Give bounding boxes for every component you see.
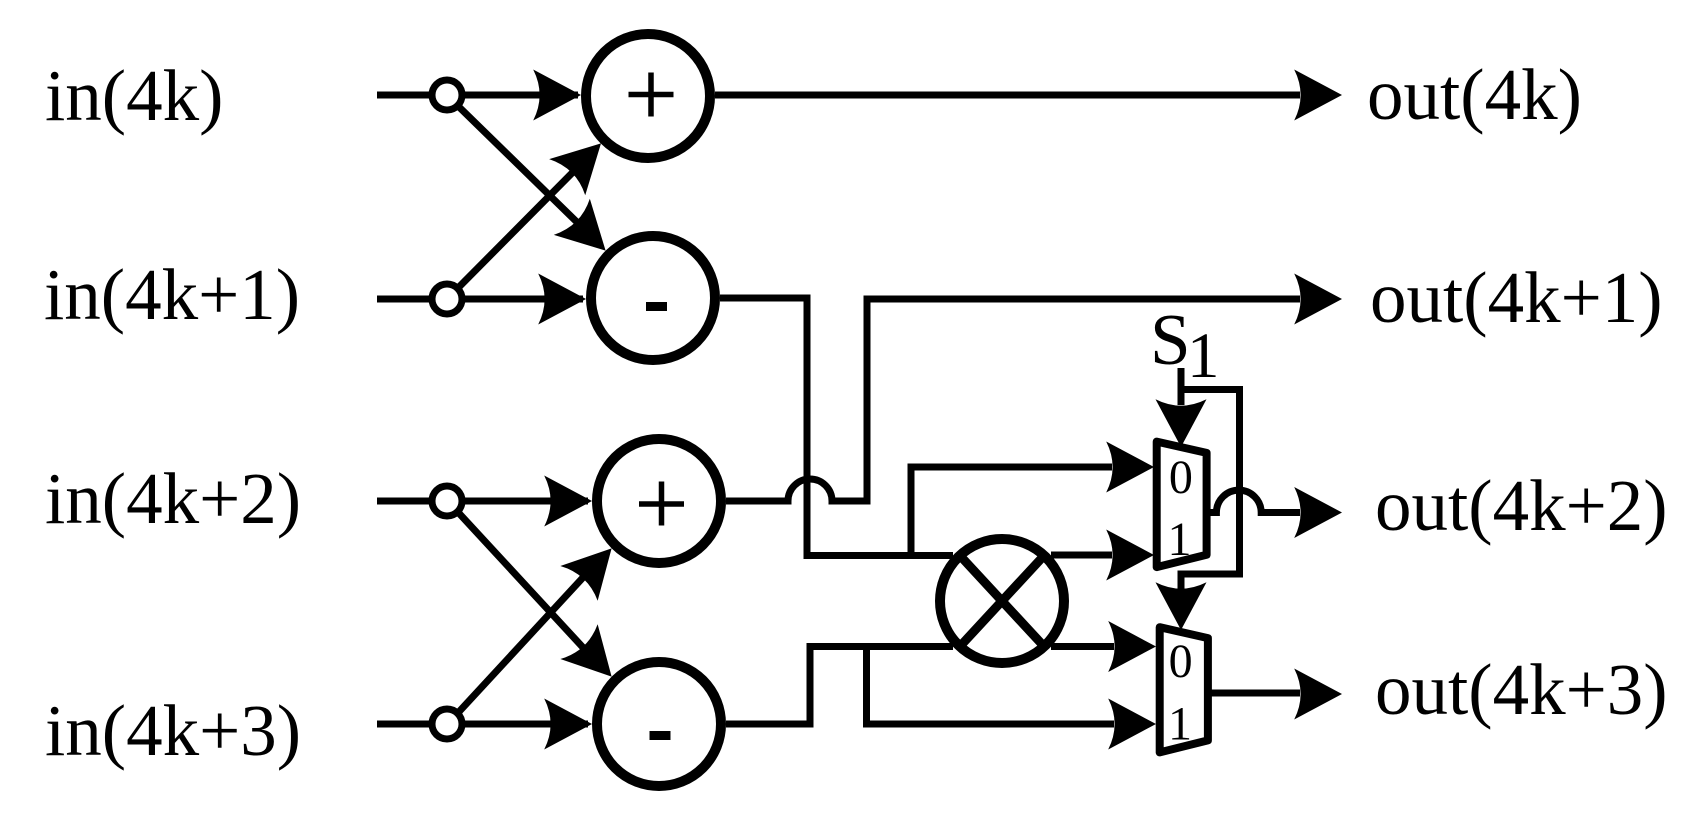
svg-text:1: 1 xyxy=(1168,513,1192,566)
wire: select S1 to mux M1 xyxy=(1156,368,1207,447)
wire: subtractor S1cir output jog down to multiplier row xyxy=(720,298,953,556)
wire: cross diagonal node A to subtractor S1cir xyxy=(456,104,624,269)
wire: mux M2 output to out(4k+3) xyxy=(1208,669,1342,720)
wire: cross diagonal node C to subtractor S2cir xyxy=(456,510,630,694)
svg-text:out(4k+1): out(4k+1) xyxy=(1370,257,1663,338)
wire: in(4k) input line xyxy=(377,92,578,99)
arrowhead into adder A1 xyxy=(533,70,581,121)
node C on in(4k+2) xyxy=(432,486,462,516)
wire: multiplier to mux M1 input 1 xyxy=(1051,530,1154,581)
svg-text:S: S xyxy=(1150,299,1191,380)
wire: select S1 branch to mux M2 xyxy=(1156,390,1240,631)
node B on in(4k+1) xyxy=(432,284,462,314)
svg-text:1: 1 xyxy=(1187,320,1220,392)
adder A2 (+) xyxy=(597,439,721,563)
subtractor S1cir (-) xyxy=(591,236,715,360)
wire: subtractor S2cir output jog up to multiplier row xyxy=(726,647,953,725)
wire: multiplier to mux M2 input 0 xyxy=(1051,621,1156,672)
wire: cross diagonal node D to adder A2 xyxy=(456,531,630,715)
node A on in(4k) xyxy=(432,80,462,110)
svg-text:in(4k): in(4k) xyxy=(45,55,223,136)
arrowhead into adder A2 xyxy=(544,476,592,527)
wire: cross diagonal node B to adder A1 xyxy=(456,125,619,290)
svg-text:0: 0 xyxy=(1169,451,1193,504)
label S1 select xyxy=(1150,299,1220,392)
svg-text:1: 1 xyxy=(1168,698,1192,751)
node D on in(4k+3) xyxy=(432,709,462,739)
wire: in(4k+3) input line xyxy=(377,721,588,728)
mux M1 xyxy=(1157,442,1207,567)
multiplier M (circle with X) xyxy=(940,539,1064,663)
wire: out(4k) line from adder A1 xyxy=(715,70,1342,121)
svg-text:in(4k+3): in(4k+3) xyxy=(45,690,301,771)
svg-text:in(4k+1): in(4k+1) xyxy=(44,254,300,335)
wire: branch down to mux M2 input 1 xyxy=(867,647,1157,750)
svg-text:out(4k): out(4k) xyxy=(1367,54,1582,135)
wire: in(4k+1) input line xyxy=(377,296,583,303)
mux M2 xyxy=(1160,627,1208,752)
subtractor S2cir (-) xyxy=(597,662,721,786)
wire: in(4k+2) input line xyxy=(377,498,588,505)
wire: adder A2 output with hop, up to out(4k+1) xyxy=(726,274,1342,502)
svg-text:out(4k+2): out(4k+2) xyxy=(1375,465,1668,546)
arrowhead into subtractor S2cir xyxy=(544,699,592,750)
wire: branch to mux M1 input 0 xyxy=(911,442,1154,556)
arrowhead into subtractor S1cir xyxy=(538,274,586,325)
adder A1 (+) xyxy=(586,34,710,158)
svg-text:in(4k+2): in(4k+2) xyxy=(45,458,301,539)
wire: mux M1 output with hop to out(4k+2) xyxy=(1207,487,1342,538)
svg-text:0: 0 xyxy=(1169,635,1193,688)
svg-text:out(4k+3): out(4k+3) xyxy=(1375,649,1668,730)
